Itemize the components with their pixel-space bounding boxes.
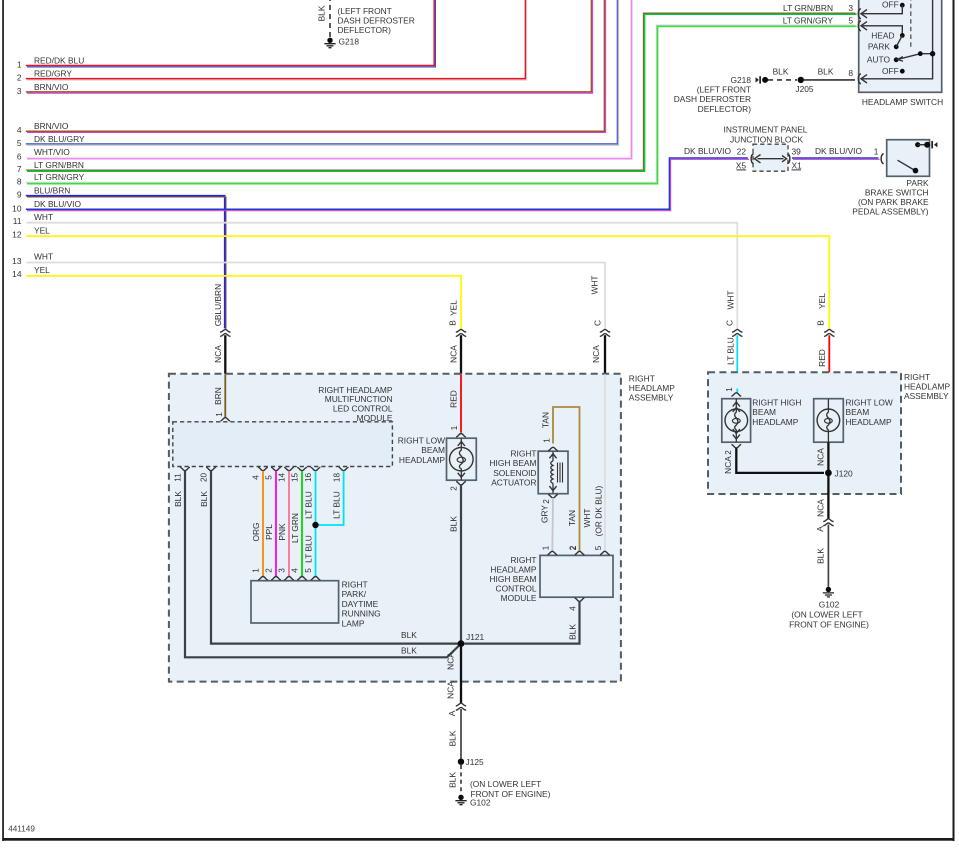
svg-text:G: G [213, 320, 223, 327]
wire PNK pin 14 to lamp pin 3 [277, 471, 289, 577]
inline connector A (right) [815, 519, 834, 532]
svg-text:3: 3 [848, 3, 853, 13]
svg-text:HEADLAMP SWITCH: HEADLAMP SWITCH [862, 97, 943, 107]
svg-text:5: 5 [17, 138, 22, 148]
svg-text:4: 4 [291, 568, 300, 573]
svg-text:PNK: PNK [277, 523, 287, 541]
wire NCA below connector B (wire 14) [449, 335, 462, 374]
wire BRN to module pin 1 [213, 374, 230, 421]
wire DK BLU/VIO junction block to park brake switch [792, 146, 880, 160]
inline connector G on wire 9 [220, 329, 230, 336]
svg-text:5: 5 [304, 568, 313, 573]
svg-text:20: 20 [200, 473, 209, 483]
wire PPL pin 5 to lamp pin 2 [264, 471, 276, 577]
splice J205 [795, 77, 814, 94]
svg-text:YEL: YEL [34, 265, 50, 275]
svg-text:1: 1 [17, 60, 22, 70]
svg-text:PEDAL ASSEMBLY): PEDAL ASSEMBLY) [852, 207, 929, 217]
svg-text:LT GRN/BRN: LT GRN/BRN [34, 160, 84, 170]
headlamp switch HEAD contact [861, 26, 905, 41]
svg-text:NCA: NCA [723, 456, 733, 474]
headlamp switch S1 [859, 0, 943, 107]
wire BLK to ground G102 (right) [815, 525, 828, 587]
svg-text:BLK: BLK [173, 491, 183, 507]
svg-text:1: 1 [541, 545, 550, 550]
svg-text:RUNNING: RUNNING [342, 609, 381, 619]
svg-text:(ON LOWER LEFT: (ON LOWER LEFT [470, 779, 541, 789]
svg-text:ACTUATOR: ACTUATOR [491, 478, 536, 488]
svg-text:HIGH BEAM: HIGH BEAM [490, 574, 537, 584]
svg-text:C: C [593, 320, 603, 326]
wire NCA low beam to J120 [815, 442, 828, 470]
wire BLK J125 to ground (dashed) [448, 765, 462, 794]
svg-text:RED/GRY: RED/GRY [34, 69, 72, 79]
svg-text:DAYTIME: DAYTIME [342, 599, 379, 609]
wire LT GRN pin 15 to lamp pin 4 [290, 471, 302, 577]
svg-text:BLK: BLK [448, 772, 458, 788]
wire 6 WHT/VIO [17, 0, 632, 161]
svg-text:2: 2 [569, 545, 578, 550]
svg-text:5: 5 [848, 15, 853, 25]
wire 2 RED/GRY [17, 0, 527, 83]
wire BLK dashed G218 to splice J205 [768, 67, 797, 80]
svg-text:INSTRUMENT PANEL: INSTRUMENT PANEL [724, 125, 808, 135]
svg-text:DEFLECTOR): DEFLECTOR) [698, 104, 752, 114]
wire WHT (OR DK BLU) to control module pin 5 [582, 374, 605, 551]
svg-text:1: 1 [450, 425, 459, 430]
junction of LT BLU wires [312, 522, 318, 528]
wire NCA from J120 down [815, 476, 828, 519]
wire ORG pin 4 to lamp pin 1 [251, 471, 263, 577]
junction block pin 39 (connector X1) [787, 146, 802, 170]
wire RED to low beam headlamp pin 1 [449, 374, 462, 432]
svg-text:A: A [815, 526, 825, 532]
svg-text:X1: X1 [792, 160, 803, 170]
svg-text:MODULE: MODULE [357, 413, 393, 423]
svg-text:11: 11 [174, 473, 183, 482]
svg-text:LT GRN/GRY: LT GRN/GRY [34, 172, 85, 182]
svg-text:8: 8 [848, 68, 853, 78]
svg-text:NCA: NCA [815, 499, 825, 517]
svg-text:RIGHT: RIGHT [510, 449, 536, 459]
svg-text:J205: J205 [795, 84, 814, 94]
svg-text:39: 39 [792, 146, 802, 156]
svg-text:5: 5 [265, 475, 274, 480]
svg-text:LT GRN/BRN: LT GRN/BRN [783, 3, 833, 13]
svg-text:DK BLU/VIO: DK BLU/VIO [34, 199, 81, 209]
wire LT BLU below connector C (wire 11) [726, 335, 738, 388]
svg-text:DK BLU/GRY: DK BLU/GRY [34, 134, 85, 144]
wire 7 LT GRN/BRN [17, 13, 857, 174]
svg-text:6: 6 [17, 151, 22, 161]
svg-text:NCA: NCA [213, 345, 223, 363]
svg-text:RED/DK BLU: RED/DK BLU [34, 55, 84, 65]
svg-text:WHT: WHT [34, 212, 53, 222]
svg-text:OFF: OFF [882, 0, 899, 10]
svg-text:WHT: WHT [726, 290, 736, 309]
svg-text:LAMP: LAMP [342, 618, 365, 628]
wire BLK J205 to switch pin 8 [804, 67, 855, 80]
inline connector A (center) [447, 703, 466, 716]
ground G102 (center) [455, 779, 550, 808]
svg-text:WHT: WHT [590, 275, 600, 294]
svg-text:LT BLU: LT BLU [332, 491, 342, 519]
headlamp switch PARK contact and blade [868, 35, 902, 51]
wire NCA below connector C (wire 13) [591, 335, 605, 374]
wire 10 DK BLU/VIO [12, 146, 749, 214]
svg-text:BEAM: BEAM [752, 407, 776, 417]
svg-text:13: 13 [12, 256, 22, 266]
inline connector C on wire 11 [732, 329, 742, 336]
svg-text:GRY: GRY [540, 505, 550, 523]
right headlamp high beam control module U2 [490, 545, 614, 611]
svg-text:ASSEMBLY: ASSEMBLY [629, 392, 674, 402]
svg-text:C: C [725, 320, 735, 326]
right headlamp multifunction LED control module U1 [173, 385, 393, 467]
svg-text:BLK: BLK [401, 630, 417, 640]
svg-text:ASSEMBLY: ASSEMBLY [904, 391, 949, 401]
svg-text:2: 2 [724, 450, 733, 455]
headlamp switch AUTO contact and wiper [861, 0, 935, 79]
svg-text:4: 4 [569, 606, 578, 611]
svg-text:BLU/BRN: BLU/BRN [213, 284, 223, 320]
LED control module bottom pins 11,20,4,5,14,15,16,18 [174, 467, 349, 482]
svg-text:DASH DEFROSTER: DASH DEFROSTER [674, 94, 751, 104]
wire 11 WHT [13, 212, 738, 329]
svg-text:LT GRN/GRY: LT GRN/GRY [783, 15, 834, 25]
right headlamp assembly (right dashed box) [708, 372, 950, 494]
svg-text:RIGHT LOW: RIGHT LOW [398, 436, 445, 446]
svg-text:PARK/: PARK/ [342, 589, 367, 599]
svg-text:HEADLAMP: HEADLAMP [752, 417, 798, 427]
svg-text:SOLENOID: SOLENOID [493, 468, 536, 478]
inline connector C on wire 13 [600, 329, 610, 336]
inline connector B on wire 12 [824, 329, 834, 336]
splice J125 [458, 757, 484, 767]
svg-text:15: 15 [291, 473, 300, 483]
svg-text:G102: G102 [819, 600, 840, 610]
svg-text:YEL: YEL [34, 225, 50, 235]
svg-text:J121: J121 [466, 632, 485, 642]
svg-text:B: B [816, 320, 826, 326]
svg-text:LT GRN: LT GRN [290, 513, 300, 543]
right low beam headlamp E4 [814, 398, 893, 443]
svg-text:JUNCTION BLOCK: JUNCTION BLOCK [730, 134, 803, 144]
svg-text:HEAD: HEAD [871, 30, 894, 40]
svg-text:ORG: ORG [251, 522, 261, 541]
svg-text:BLK: BLK [568, 624, 578, 640]
svg-text:1: 1 [543, 438, 552, 443]
svg-text:BLK: BLK [401, 646, 417, 656]
wire NCA from J121 down [446, 647, 462, 703]
svg-text:TAN: TAN [541, 412, 551, 428]
instrument panel junction block [724, 125, 808, 172]
svg-text:1: 1 [874, 146, 879, 156]
svg-text:NCA: NCA [446, 652, 456, 670]
wire GRY actuator pin 2 to control module pin 1 [540, 498, 554, 551]
junction block pin 22 (connector X5) [736, 146, 754, 170]
svg-text:WHT: WHT [34, 252, 53, 262]
svg-text:BRN/VIO: BRN/VIO [34, 121, 69, 131]
svg-text:PPL: PPL [264, 524, 274, 540]
svg-text:RIGHT: RIGHT [510, 555, 536, 565]
svg-text:(LEFT FRONT: (LEFT FRONT [697, 85, 751, 95]
svg-text:G218: G218 [339, 36, 360, 46]
svg-text:10: 10 [12, 203, 22, 213]
svg-text:FRONT OF ENGINE): FRONT OF ENGINE) [471, 789, 551, 799]
right high beam solenoid actuator L1 [490, 447, 569, 503]
wire 13 WHT [12, 252, 605, 329]
svg-text:HEADLAMP: HEADLAMP [846, 417, 892, 427]
svg-text:2: 2 [450, 486, 459, 491]
headlamp switch pin 3 [783, 3, 867, 19]
svg-text:2: 2 [265, 568, 274, 573]
svg-text:B: B [448, 320, 458, 326]
svg-text:J125: J125 [466, 757, 485, 767]
svg-text:BLK: BLK [448, 730, 458, 746]
svg-text:CONTROL: CONTROL [496, 583, 537, 593]
svg-text:BEAM: BEAM [421, 445, 445, 455]
svg-text:NCA: NCA [591, 345, 601, 363]
wire BLK control module pin 4 to J121 [464, 601, 580, 643]
svg-text:X5: X5 [736, 160, 747, 170]
wire BLK low beam to J121 [449, 485, 462, 641]
ground reference G218 (left front dash defroster deflector) [674, 75, 768, 114]
headlamp switch pin 8 [848, 68, 867, 84]
wire 8 LT GRN/GRY [17, 25, 857, 186]
svg-text:RIGHT: RIGHT [342, 580, 368, 590]
svg-text:2: 2 [542, 499, 551, 504]
svg-text:PARK: PARK [868, 42, 891, 52]
svg-text:DK BLU/VIO: DK BLU/VIO [684, 146, 731, 156]
headlamp switch OFF contact (lower) [882, 66, 905, 76]
svg-text:1: 1 [215, 412, 224, 417]
svg-text:BLK: BLK [199, 491, 209, 507]
wire 1 RED/DK BLU [17, 0, 436, 69]
svg-text:RED: RED [817, 349, 827, 367]
wire 12 YEL [12, 225, 829, 329]
svg-text:A: A [447, 710, 457, 716]
svg-text:NCA: NCA [446, 681, 456, 699]
svg-text:BLU/BRN: BLU/BRN [34, 186, 70, 196]
svg-text:BRN/VIO: BRN/VIO [34, 82, 69, 92]
wire BLK from pin 11 to J121 [173, 471, 461, 657]
svg-text:TAN: TAN [567, 510, 577, 526]
svg-text:9: 9 [17, 190, 22, 200]
wire LT BLU pin 18 branch [316, 471, 344, 525]
svg-text:LT BLU: LT BLU [304, 535, 314, 563]
svg-text:NCA: NCA [449, 345, 459, 363]
svg-text:12: 12 [12, 229, 22, 239]
park brake switch S2 [852, 140, 937, 217]
wire TAN actuator pin 1 to control module pin 2 [541, 407, 580, 551]
svg-text:16: 16 [304, 473, 313, 483]
svg-text:J120: J120 [835, 469, 854, 479]
svg-text:MODULE: MODULE [501, 593, 537, 603]
wire 4 BRN/VIO [17, 0, 606, 135]
svg-text:(LEFT FRONT: (LEFT FRONT [338, 6, 392, 16]
svg-text:BEAM: BEAM [846, 407, 870, 417]
svg-text:AUTO: AUTO [867, 55, 891, 65]
wire NCA high beam pin 2 to J120 [723, 448, 824, 474]
svg-text:RED: RED [449, 390, 459, 408]
wire 5 DK BLU/GRY [17, 0, 619, 148]
svg-text:DK BLU/VIO: DK BLU/VIO [815, 146, 862, 156]
svg-text:BLK: BLK [818, 67, 834, 77]
svg-text:DASH DEFROSTER: DASH DEFROSTER [338, 16, 415, 26]
svg-text:BLK: BLK [449, 516, 459, 532]
svg-text:HIGH BEAM: HIGH BEAM [490, 458, 537, 468]
svg-text:FRONT OF ENGINE): FRONT OF ENGINE) [789, 620, 869, 630]
svg-text:BLK: BLK [773, 67, 789, 77]
svg-text:18: 18 [332, 473, 341, 483]
headlamp switch OFF contact (top) [861, 0, 905, 14]
svg-text:WHT/VIO: WHT/VIO [34, 147, 70, 157]
wire 14 YEL [12, 265, 461, 329]
diagram number 441149 [8, 825, 35, 834]
svg-text:HEADLAMP: HEADLAMP [399, 455, 445, 465]
wire RED below connector B (wire 12) [817, 335, 829, 399]
low beam headlamp E2 (in left assembly) [398, 434, 477, 491]
svg-text:5: 5 [594, 545, 603, 550]
ground G102 (right) [789, 587, 869, 630]
wire BLK from pin 20 to J121 [199, 471, 458, 644]
wire 3 BRN/VIO [17, 0, 593, 96]
svg-text:3: 3 [17, 86, 22, 96]
svg-text:4: 4 [252, 475, 261, 480]
svg-text:8: 8 [17, 176, 22, 186]
svg-text:LT BLU: LT BLU [304, 491, 314, 519]
ground G218 (top left) [324, 6, 414, 48]
park brake switch pin 1 connector [881, 154, 894, 164]
svg-text:BRN: BRN [213, 387, 223, 405]
svg-text:14: 14 [278, 473, 287, 483]
svg-text:14: 14 [12, 269, 22, 279]
svg-text:BRAKE SWITCH: BRAKE SWITCH [865, 187, 929, 197]
svg-text:OFF: OFF [882, 66, 899, 76]
svg-text:2: 2 [17, 73, 22, 83]
svg-text:22: 22 [737, 146, 747, 156]
svg-text:BLK: BLK [317, 5, 327, 21]
right park/daytime running lamp E1 [251, 568, 381, 629]
svg-text:G102: G102 [470, 798, 491, 808]
svg-text:BLK: BLK [815, 548, 825, 564]
svg-text:PARK: PARK [906, 178, 929, 188]
svg-text:YEL: YEL [817, 293, 827, 309]
junction J120 [825, 469, 853, 479]
wire BLK dashed to ground G218 (top left) [317, 0, 331, 37]
svg-text:(ON LOWER LEFT: (ON LOWER LEFT [791, 610, 862, 620]
junction J121 [458, 632, 485, 647]
svg-text:WHT: WHT [582, 508, 592, 527]
svg-text:NCA: NCA [815, 448, 825, 466]
svg-text:1: 1 [252, 568, 261, 573]
headlamp switch pin 5 [783, 15, 867, 31]
inline connector B on wire 14 [456, 329, 466, 336]
svg-text:DEFLECTOR): DEFLECTOR) [338, 25, 392, 35]
svg-text:HEADLAMP: HEADLAMP [490, 564, 536, 574]
wire 9 BLU/BRN [17, 186, 226, 330]
svg-text:LT BLU: LT BLU [726, 337, 736, 365]
svg-text:YEL: YEL [449, 300, 459, 316]
wire LT BLU pin 16 to lamp pin 5 [304, 471, 316, 577]
svg-text:(OR DK BLU): (OR DK BLU) [594, 485, 604, 536]
svg-text:441149: 441149 [8, 825, 35, 834]
svg-text:11: 11 [13, 216, 22, 226]
right headlamp assembly (left dashed box) [169, 374, 675, 682]
svg-text:(ON PARK BRAKE: (ON PARK BRAKE [858, 197, 929, 207]
wire LT BLU into high beam lamp pin 1 [736, 389, 738, 393]
svg-text:RIGHT LOW: RIGHT LOW [846, 398, 893, 408]
right high beam headlamp E3 [722, 387, 802, 448]
svg-text:7: 7 [17, 164, 22, 174]
svg-text:3: 3 [278, 568, 287, 573]
svg-text:RIGHT HIGH: RIGHT HIGH [752, 398, 801, 408]
svg-text:G218: G218 [731, 75, 752, 85]
svg-text:4: 4 [17, 125, 22, 135]
svg-text:1: 1 [725, 387, 734, 392]
wire BLK to J125 [448, 709, 462, 759]
wire NCA below connector G [213, 335, 226, 374]
